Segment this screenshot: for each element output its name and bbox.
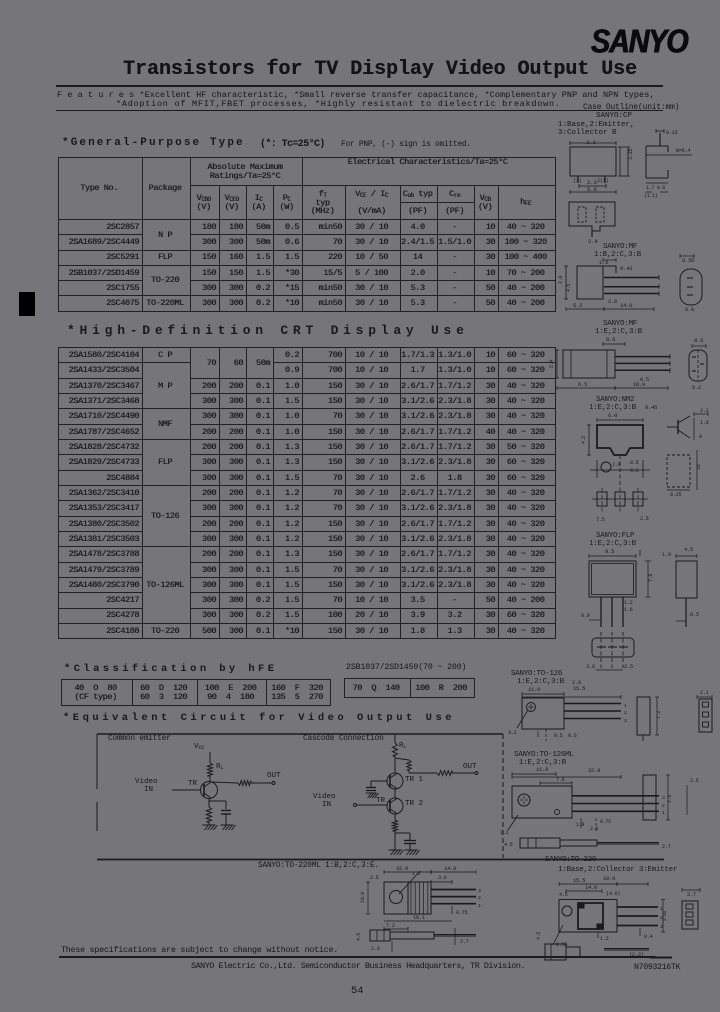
package SANYO:MF(2) front view <box>549 336 670 390</box>
package SANYO:TO-220 pin side view <box>682 888 700 929</box>
package SANYO:NM2 schematic mark <box>667 408 709 440</box>
wire collector to output resistor <box>211 782 238 783</box>
svg-text:1:E,2:C,3:B: 1:E,2:C,3:B <box>595 328 643 336</box>
svg-text:(1.1): (1.1) <box>644 193 658 199</box>
svg-text:1.7 0.6: 1.7 0.6 <box>646 185 665 191</box>
svg-text:7.8: 7.8 <box>648 574 654 582</box>
svg-text:SANYO:NM2: SANYO:NM2 <box>596 396 635 404</box>
svg-text:SANYO:TO-220: SANYO:TO-220 <box>545 856 597 864</box>
resistor RL (common emitter load) <box>207 763 212 776</box>
heading general purpose <box>62 137 245 149</box>
package SANYO:MF(1) front view <box>558 258 659 311</box>
label Common emitter <box>108 735 171 743</box>
capacitor cascode emitter bypass <box>404 841 416 851</box>
svg-text:2.8: 2.8 <box>608 299 617 305</box>
svg-text:2.7: 2.7 <box>662 844 671 850</box>
wire TR2 emitter down <box>394 814 396 820</box>
wire TR1 emitter to TR2 collector <box>394 789 396 798</box>
svg-text:6.0: 6.0 <box>608 412 618 419</box>
svg-text:B=0.4: B=0.4 <box>676 148 690 154</box>
svg-text:16.0: 16.0 <box>633 381 646 388</box>
package SANYO:TO-220 dimension header <box>559 875 648 898</box>
rule under title <box>56 85 663 87</box>
package SANYO:TO-220ML lying view <box>356 923 476 952</box>
svg-text:1: 1 <box>478 903 481 909</box>
capacitor TR1 base decoupling <box>366 788 376 791</box>
package SANYO:NM2 lead detail <box>590 455 650 488</box>
features line 1 <box>57 90 655 100</box>
svg-text:1.0: 1.0 <box>700 420 709 426</box>
wire emitter resistor to ground node <box>395 831 410 850</box>
transistor TR 2 (cascode lower) <box>387 798 403 814</box>
svg-text:7.2: 7.2 <box>656 711 662 719</box>
classification table right <box>344 678 475 698</box>
svg-text:3.2: 3.2 <box>508 730 517 736</box>
resistor TR2 emitter <box>392 820 397 831</box>
svg-text:3: 3 <box>624 718 627 724</box>
svg-text:2.9: 2.9 <box>590 826 598 832</box>
package SANYO:MF(1) bottom view <box>680 254 702 313</box>
wire TR1 base <box>371 781 387 787</box>
svg-text:6.2: 6.2 <box>692 385 701 391</box>
package SANYO:CP bottom pin layout <box>569 202 615 245</box>
svg-text:2.5: 2.5 <box>690 778 699 784</box>
svg-text:0.5: 0.5 <box>694 337 703 344</box>
svg-text:SANYO:MF: SANYO:MF <box>603 320 638 328</box>
label Video IN cascode <box>313 793 336 809</box>
svg-text:4.5: 4.5 <box>356 933 362 941</box>
features line 2 <box>116 99 561 109</box>
svg-text:SANYO:TO-126: SANYO:TO-126 <box>511 670 563 678</box>
package SANYO:FLP front view <box>581 548 654 627</box>
package SANYO:NM2 footprint <box>592 488 649 523</box>
footer rule <box>59 956 656 958</box>
wire OUT line cascode <box>409 770 437 773</box>
svg-text:2.7: 2.7 <box>460 939 469 945</box>
label OUT common emitter <box>267 772 281 780</box>
caption SANYO:NM2 <box>589 396 657 412</box>
svg-text:2.55: 2.55 <box>662 911 668 921</box>
svg-text:4.5: 4.5 <box>684 547 693 553</box>
svg-text:0.6: 0.6 <box>568 733 577 739</box>
package SANYO:TO-126ML side view <box>643 775 699 820</box>
svg-text:2.5: 2.5 <box>370 875 379 881</box>
svg-text:0.43: 0.43 <box>620 265 632 272</box>
svg-text:3.0: 3.0 <box>438 875 447 881</box>
svg-text:10.0: 10.0 <box>360 892 366 903</box>
svg-text:15.8: 15.8 <box>588 767 600 774</box>
svg-text:2: 2 <box>624 710 627 716</box>
caption SANYO:MF 2 <box>595 320 643 336</box>
package SANYO:TO-126ML lying view <box>504 838 671 850</box>
svg-text:2: 2 <box>662 803 665 809</box>
resistor emitter (common emitter) <box>206 807 211 822</box>
svg-text:14.0: 14.0 <box>620 302 633 309</box>
svg-text:1: 1 <box>660 906 663 912</box>
rule under features <box>56 110 663 111</box>
svg-text:10.0: 10.0 <box>603 875 616 882</box>
Case Outline caption <box>583 103 679 112</box>
svg-text:1: 1 <box>624 703 627 709</box>
wire to OUT terminal cascode <box>452 772 478 775</box>
svg-text:6.5: 6.5 <box>578 381 587 388</box>
footer texts <box>61 945 338 955</box>
wire to OUT terminal <box>251 782 275 785</box>
svg-text:3.35: 3.35 <box>628 149 634 160</box>
package SANYO:TO-220 front view <box>553 900 668 949</box>
svg-text:(1): (1) <box>573 178 582 184</box>
caption SANYO:TO-126 <box>511 670 581 686</box>
package SANYO:TO-126 side view <box>637 697 662 741</box>
package outline SANYO:CP front view <box>570 139 634 176</box>
svg-text:0.5: 0.5 <box>554 733 563 739</box>
equivalent circuit heading <box>63 712 455 724</box>
resistor series OUT cascode <box>437 771 452 776</box>
svg-text:SANYO:TO-126ML: SANYO:TO-126ML <box>514 751 574 759</box>
svg-text:1:B,2:C,3:B: 1:B,2:C,3:B <box>594 251 642 259</box>
label Video IN common emitter <box>135 778 158 794</box>
caption SANYO:TO-126ML <box>514 751 574 767</box>
resistor output series (common emitter) <box>238 781 251 786</box>
label TR before TR2 <box>376 797 385 805</box>
wire Video IN to base <box>172 789 200 791</box>
svg-text:5.2: 5.2 <box>573 302 582 309</box>
table 2 <box>58 347 556 639</box>
package SANYO:NM2 side dashed view <box>667 450 702 498</box>
svg-text:7.5: 7.5 <box>667 795 673 803</box>
svg-text:4.5: 4.5 <box>536 932 542 940</box>
svg-text:2.2: 2.2 <box>500 830 509 836</box>
black index tab <box>19 292 35 316</box>
svg-text:0.5: 0.5 <box>630 468 639 474</box>
package SANYO:FLP side view <box>662 547 699 627</box>
svg-text:2.5: 2.5 <box>624 664 633 670</box>
package SANYO:TO-126 pin view <box>697 690 712 732</box>
svg-text:(4.6): (4.6) <box>606 891 620 897</box>
package SANYO:TO-126 front view <box>508 685 627 741</box>
svg-text:2: 2 <box>478 895 481 901</box>
package SANYO:FLP footprint <box>586 632 634 670</box>
svg-text:1:Base,2:Collector 3:Emitter: 1:Base,2:Collector 3:Emitter <box>558 866 677 874</box>
svg-text:0.5: 0.5 <box>630 460 639 466</box>
svg-text:0.4: 0.4 <box>644 934 653 940</box>
svg-text:1.9: 1.9 <box>662 552 671 558</box>
svg-text:18.1: 18.1 <box>413 915 425 921</box>
wire emitter down <box>209 798 226 809</box>
svg-text:0.25: 0.25 <box>670 492 681 498</box>
transistor TR 1 (cascode upper) <box>387 773 403 789</box>
svg-text:2.4: 2.4 <box>588 238 598 245</box>
svg-text:4.5: 4.5 <box>504 842 513 848</box>
caption SANYO:MF 1 <box>594 243 642 259</box>
svg-text:0.75: 0.75 <box>456 910 467 916</box>
classification heading <box>64 663 277 675</box>
label TR common emitter <box>188 780 197 788</box>
label Cascode Connection <box>303 735 384 743</box>
svg-text:2(1): 2(1) <box>597 178 608 184</box>
wire node to tap resistor <box>395 756 409 773</box>
svg-text:1: 1 <box>662 810 665 816</box>
svg-text:3: 3 <box>478 888 481 894</box>
svg-text:7.2: 7.2 <box>386 923 395 929</box>
package SANYO:MF(2) bottom view <box>689 337 707 391</box>
svg-text:8.0: 8.0 <box>606 336 616 343</box>
svg-text:2.9: 2.9 <box>612 462 621 468</box>
transistor TR (common emitter) <box>201 782 218 799</box>
svg-text:0.9: 0.9 <box>581 613 590 619</box>
classification table left <box>61 679 331 706</box>
package SANYO:TO-220ML dimension header <box>360 865 476 914</box>
wire resistor to ground <box>208 822 210 825</box>
svg-text:11.0: 11.0 <box>528 686 541 693</box>
svg-text:0.55: 0.55 <box>682 257 694 264</box>
package SANYO:CP side view <box>644 129 692 199</box>
package SANYO:CP pins under front view <box>570 176 616 194</box>
svg-text:15.5: 15.5 <box>573 685 585 692</box>
label OUT cascode <box>463 763 477 771</box>
ground (bypass capacitor) <box>221 825 236 830</box>
wire VCC feed <box>209 752 211 763</box>
svg-text:2.1: 2.1 <box>700 690 709 696</box>
table 1 <box>58 157 556 312</box>
wire cascode supply <box>394 735 396 743</box>
svg-text:1:E,2:C,3:B: 1:E,2:C,3:B <box>517 678 565 686</box>
label RL cascode <box>399 742 406 750</box>
svg-text:14.0: 14.0 <box>585 884 598 891</box>
svg-text:SANYO:FLP: SANYO:FLP <box>596 532 635 540</box>
svg-text:2.3: 2.3 <box>586 139 596 146</box>
svg-text:15.0: 15.0 <box>396 865 409 872</box>
caption SANYO:FLP <box>589 532 637 548</box>
svg-text:3.6: 3.6 <box>586 664 595 670</box>
heading high definition <box>67 323 469 338</box>
svg-text:1.2: 1.2 <box>600 936 609 942</box>
label VCC <box>194 743 204 751</box>
package SANYO:TO-126ML front view <box>500 766 665 836</box>
svg-text:3: 3 <box>662 795 665 801</box>
svg-text:2.2: 2.2 <box>700 408 709 414</box>
capacitor emitter bypass <box>221 811 231 826</box>
resistor tap (cascode) <box>407 760 411 770</box>
svg-text:1:E,2:C,3:B: 1:E,2:C,3:B <box>589 540 637 548</box>
ground (emitter resistor) <box>203 825 218 830</box>
svg-text:7.6: 7.6 <box>556 777 565 783</box>
package SANYO:TO-220 lying view <box>536 932 672 960</box>
svg-text:2.3: 2.3 <box>587 179 597 186</box>
svg-text:5.8: 5.8 <box>587 186 597 193</box>
resistor RL cascode load <box>393 743 398 756</box>
SANYO logo <box>591 22 687 61</box>
package SANYO:NM2 front view <box>581 412 643 455</box>
svg-text:2.7: 2.7 <box>687 892 696 898</box>
package SANYO:TO-220ML front view <box>384 871 481 921</box>
svg-text:6.0: 6.0 <box>685 307 694 313</box>
svg-text:SANYO:MF: SANYO:MF <box>603 243 638 251</box>
caption SANYO:TO-220 <box>545 856 677 874</box>
svg-text:4.5: 4.5 <box>581 436 587 444</box>
svg-text:0.15: 0.15 <box>666 130 677 136</box>
svg-text:3: 3 <box>660 924 663 930</box>
svg-text:9.5: 9.5 <box>605 548 614 555</box>
svg-text:4.5: 4.5 <box>566 284 572 292</box>
wire Video IN cascode <box>354 804 388 807</box>
svg-text:14.0: 14.0 <box>444 865 457 872</box>
caption SANYO:TO-220ML <box>258 862 379 870</box>
ground (cascode bypass) <box>405 850 420 855</box>
svg-text:2.3: 2.3 <box>371 946 380 952</box>
svg-text:8: 8 <box>699 434 702 440</box>
svg-text:5.4: 5.4 <box>549 360 555 368</box>
label TR 1 <box>405 776 423 784</box>
svg-text:15.5: 15.5 <box>573 877 585 884</box>
wire RL to collector <box>209 776 211 782</box>
svg-text:0.75: 0.75 <box>600 819 611 825</box>
svg-text:11.8: 11.8 <box>536 766 548 773</box>
svg-text:2.0: 2.0 <box>558 276 564 284</box>
svg-text:0.45: 0.45 <box>645 404 657 411</box>
ground (TR1 base) <box>366 793 379 798</box>
equivalent-circuit box frame <box>97 734 503 858</box>
svg-text:2.5: 2.5 <box>640 516 649 522</box>
label RL common emitter <box>216 763 223 771</box>
svg-text:1.2: 1.2 <box>624 600 633 606</box>
svg-text:1.6: 1.6 <box>624 607 633 613</box>
ground (TR2 emitter) <box>389 850 404 855</box>
rule below equivalent circuit <box>97 859 664 861</box>
title <box>123 58 637 81</box>
svg-text:1:E,2:C,3:B: 1:E,2:C,3:B <box>589 404 637 412</box>
svg-text:7.5: 7.5 <box>596 517 605 523</box>
svg-text:1.9: 1.9 <box>576 822 584 828</box>
label TR 2 <box>405 800 423 808</box>
svg-text:10: 10 <box>696 464 702 470</box>
svg-text:0.5: 0.5 <box>690 612 699 618</box>
